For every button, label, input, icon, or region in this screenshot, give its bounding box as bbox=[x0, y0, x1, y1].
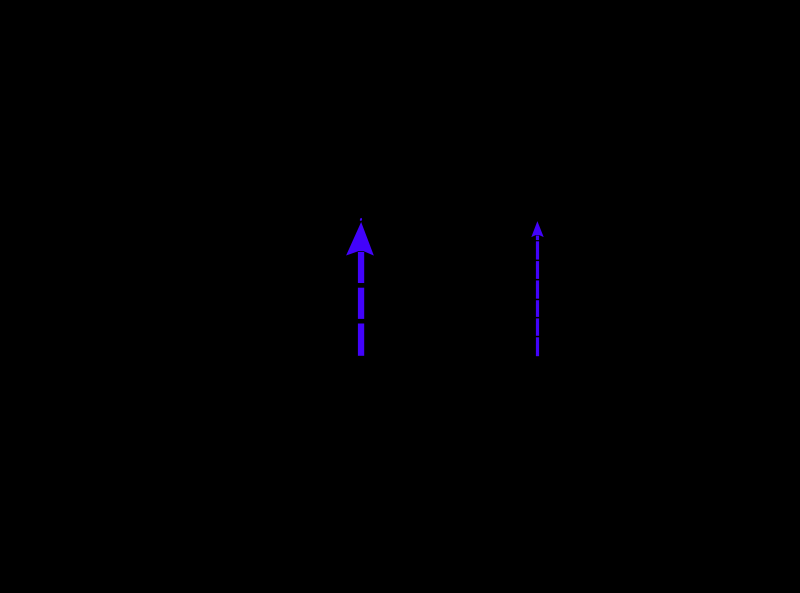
vector V1 shaft dash 1 bbox=[358, 252, 364, 283]
vector V1 shaft dash 2 bbox=[358, 288, 364, 319]
vector V2 shaft dash 5 bbox=[536, 300, 539, 317]
vector V2 arrowhead bbox=[532, 222, 543, 236]
vector V2 shaft dash 3 bbox=[536, 261, 539, 279]
vector V1 shaft dash 3 bbox=[358, 324, 364, 356]
vector V2 shaft dash 1 bbox=[536, 236, 539, 241]
vector V1 arrowhead bbox=[347, 224, 372, 255]
vector V2 shaft dash 6 bbox=[536, 318, 539, 335]
vector V2 shaft dash 2 bbox=[536, 241, 539, 259]
vector V1 tip dot bbox=[360, 218, 362, 221]
vector V2 shaft dash 7 bbox=[536, 337, 539, 356]
vector V2 shaft dash 4 bbox=[536, 280, 539, 298]
